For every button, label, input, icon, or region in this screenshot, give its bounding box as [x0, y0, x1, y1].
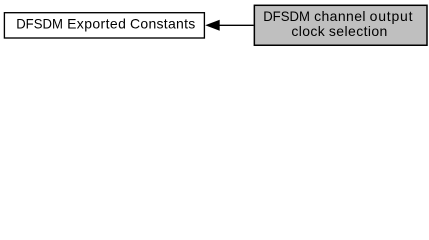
svg-text:selection: selection — [329, 23, 387, 39]
svg-text:Exported: Exported — [67, 16, 126, 32]
node: DFSDM channel output clock selection (current, grey) — [254, 5, 427, 45]
svg-text:output: output — [370, 8, 413, 24]
edge: arrow from grey node to left node — [205, 20, 254, 31]
node: DFSDM Exported Constants (box) — [4, 13, 204, 38]
svg-text:channel: channel — [314, 8, 365, 24]
arrowhead — [205, 20, 220, 31]
svg-text:Constants: Constants — [130, 16, 195, 32]
svg-text:clock: clock — [291, 23, 325, 39]
wire — [219, 24, 254, 26]
svg-text:DFSDM: DFSDM — [16, 16, 63, 32]
svg-text:DFSDM: DFSDM — [263, 8, 310, 24]
